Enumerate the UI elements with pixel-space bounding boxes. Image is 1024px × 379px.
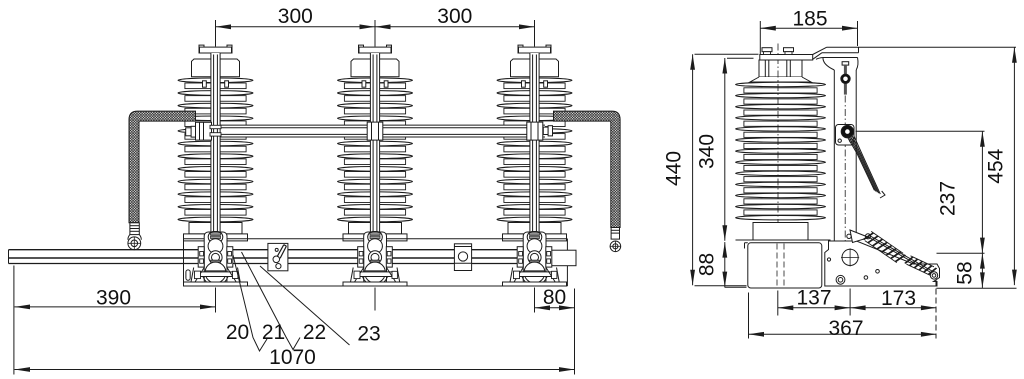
insulator pole A (left view) — [178, 45, 253, 241]
rod guide clamp — [454, 244, 471, 271]
dimension 300 (pole A-B spacing) — [216, 5, 535, 46]
operating mechanism plate — [825, 241, 940, 286]
svg-text:137: 137 — [796, 287, 831, 310]
svg-text:340: 340 — [696, 134, 719, 169]
insulator centerline (side view) — [777, 44, 779, 239]
dimension 137 — [778, 287, 850, 316]
bar clamp pole C — [527, 122, 553, 140]
spring end eye bolt — [930, 272, 937, 279]
svg-text:300: 300 — [278, 5, 313, 28]
svg-text:22: 22 — [303, 321, 326, 344]
dimension 300 (pole B-C spacing) — [375, 5, 535, 29]
dimension 440 — [663, 54, 759, 286]
closing spring (upper) — [863, 231, 906, 262]
base channel beam — [184, 239, 568, 286]
insulator pole C (left view) — [497, 45, 572, 241]
dimension 173 — [850, 280, 936, 339]
leader to item 20 — [233, 255, 267, 351]
svg-text:390: 390 — [96, 287, 131, 310]
mechanism bolts — [827, 258, 879, 284]
side view top contact plate — [760, 55, 813, 61]
braid eye terminal left — [128, 237, 141, 250]
operating rod pole B — [370, 53, 379, 245]
svg-text:440: 440 — [663, 151, 686, 186]
side view insulator fins — [736, 60, 826, 220]
closing spring (lower) — [905, 256, 937, 275]
top terminal bolts — [762, 48, 794, 77]
dimension 88 — [696, 242, 747, 287]
spring rod — [868, 235, 936, 275]
horizontal conductor bar — [204, 125, 546, 137]
dimension 390 — [14, 266, 216, 375]
side view insulator bottom and support box — [736, 223, 831, 289]
centerline tick pole B — [374, 288, 376, 311]
blade mounting shoe — [816, 58, 858, 71]
svg-text:300: 300 — [437, 5, 472, 28]
dimension 80 — [535, 286, 575, 375]
braid terminal ferrule right — [611, 228, 619, 240]
svg-text:88: 88 — [696, 253, 719, 276]
svg-text:367: 367 — [828, 317, 863, 340]
insulator pole B (left view) — [338, 45, 413, 241]
bell crank bracket — [847, 230, 871, 243]
arm bolt with dark shank — [841, 62, 850, 95]
leader to item 21 — [242, 252, 301, 350]
svg-text:237: 237 — [937, 181, 960, 216]
switch blade (top) — [813, 47, 1016, 59]
operating rod pole A — [211, 53, 220, 245]
svg-text:80: 80 — [543, 286, 566, 309]
flexible braid jumper left — [129, 111, 196, 223]
dimension 454 — [985, 47, 1017, 285]
main pivot bolt (black) — [836, 125, 855, 146]
moving blade bundle (open position) — [847, 136, 886, 199]
bar clamp pole B — [367, 122, 383, 140]
svg-text:23: 23 — [357, 323, 380, 346]
latch plate with hook (item 23) — [268, 243, 288, 270]
base right end block — [552, 250, 577, 266]
svg-text:20: 20 — [226, 321, 249, 344]
svg-text:58: 58 — [954, 261, 977, 284]
rotating bearing pole C — [503, 232, 567, 287]
dimension 58 — [937, 253, 1017, 288]
leader to item 23 — [260, 266, 350, 345]
crank shaft circle — [841, 248, 859, 266]
support arm (vertical) — [834, 70, 856, 241]
rotating bearing pole A (item 20/21) — [184, 232, 248, 287]
operating rod pole C — [530, 53, 539, 245]
dimension 1070 — [15, 346, 575, 372]
svg-text:454: 454 — [985, 148, 1008, 183]
svg-text:21: 21 — [262, 321, 285, 344]
dimension 367 — [749, 293, 937, 341]
svg-text:173: 173 — [881, 287, 916, 310]
braid eye terminal right — [610, 241, 621, 252]
bar clamp / jumper clamp pole A — [186, 122, 221, 140]
svg-text:185: 185 — [792, 8, 827, 31]
flexible braid jumper right — [554, 111, 621, 227]
base left end plate with slot — [186, 270, 190, 280]
braid terminal ferrule left — [128, 223, 141, 240]
dimension 237 — [856, 131, 985, 253]
dimension 185 — [760, 8, 857, 55]
interphase operating rod (horizontal) — [9, 250, 552, 264]
dimension 340 — [696, 58, 754, 241]
rotating bearing pole B — [343, 232, 407, 287]
